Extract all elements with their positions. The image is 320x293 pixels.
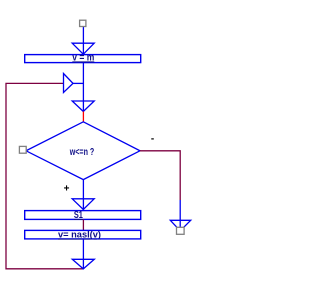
- arrowhead T2 into diamond: [72, 101, 94, 112]
- svg-text:+: +: [64, 183, 70, 194]
- svg-text:v= nasl(v): v= nasl(v): [58, 230, 101, 240]
- arrowhead T5 at loop bottom: [72, 259, 94, 269]
- process box R2: [25, 230, 141, 239]
- loop merge arrowhead (points right): [64, 74, 74, 93]
- svg-text:v = m: v = m: [72, 52, 94, 63]
- svg-text:-: -: [151, 134, 154, 145]
- start terminal wire: [82, 27, 84, 55]
- start terminal square: [80, 20, 86, 26]
- merge stub wire: [73, 82, 83, 84]
- end terminal square: [177, 227, 185, 234]
- connector square at diamond left vertex: [19, 146, 26, 153]
- process box R1: [25, 55, 141, 63]
- loop-back wire (maroon) left/bottom: [6, 83, 83, 268]
- arrowhead T4 at end terminal: [170, 220, 190, 231]
- wire R2 down to loop arrowhead: [82, 239, 84, 269]
- wire S1 to R2 (maroon): [82, 219, 84, 230]
- decision diamond: [26, 122, 140, 180]
- wire (red) into diamond top: [82, 112, 84, 122]
- wire R1 to diamond: [82, 63, 84, 112]
- false branch wire (blue): [179, 200, 181, 227]
- wire diamond bottom to S1: [82, 180, 84, 210]
- arrowhead T1 into box v=m: [72, 43, 94, 54]
- arrowhead T3 into S1: [72, 199, 94, 210]
- svg-text:S1: S1: [74, 210, 83, 221]
- process box S1: [25, 211, 141, 220]
- false branch wire (maroon) from diamond right: [140, 151, 180, 200]
- svg-text:w<=n ?: w<=n ?: [69, 147, 94, 158]
